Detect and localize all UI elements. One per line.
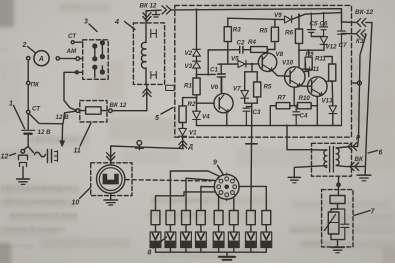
svg-text:(при с выводами: (при с выводами — [148, 211, 203, 218]
svg-text:V8: V8 — [276, 51, 284, 58]
wire battery down — [27, 135, 29, 147]
wire R1 bottom junction — [196, 95, 198, 111]
transformer 6 core — [330, 147, 334, 173]
connector chevron up on coil bottom wire — [143, 88, 151, 93]
wire R11 bottom to V13 — [331, 81, 334, 106]
box 3 lower-left terminal — [75, 71, 78, 74]
svg-text:9: 9 — [213, 160, 217, 167]
relay 3 lower contact pair — [95, 66, 103, 78]
branch right wire lower — [256, 97, 258, 103]
distributor tick marks — [213, 173, 241, 201]
base feed wire to V6 — [197, 102, 215, 104]
terminal VK12 circle — [109, 109, 113, 113]
wire V5 to V8 base — [245, 64, 259, 72]
wire R1/R2 junction branch — [183, 98, 197, 106]
wire fork to starter switch — [28, 147, 45, 157]
secondary lead lower with chevrons to VK — [336, 166, 365, 167]
wire coil top to bus with connector chevrons — [146, 10, 161, 28]
HV transformer box 6 (dashed) — [312, 143, 352, 176]
svg-text:R3: R3 — [233, 27, 241, 34]
starter switch contact bars — [47, 150, 49, 163]
transformer 6 primary winding — [324, 150, 327, 167]
suppression resistors of plug columns — [151, 211, 271, 225]
primary lead upper (to block output) — [312, 149, 327, 151]
svg-text:R1: R1 — [184, 83, 192, 90]
svg-text:V13: V13 — [322, 98, 334, 105]
svg-text:- ВК-12 и на вывод пн: - ВК-12 и на вывод пн — [2, 185, 72, 192]
wire ST switch blade to box 11 — [30, 111, 76, 124]
resistor R7 body — [276, 103, 290, 109]
wire K3 right margin vertical — [358, 35, 366, 147]
wire coil bottom to VK12 node with chevrons — [112, 85, 147, 111]
dashed mechanical link sensor to distributor — [125, 180, 211, 181]
svg-text:КЗ: КЗ — [356, 39, 364, 45]
terminal ST — [27, 110, 30, 113]
connector 12 contact brackets — [19, 155, 28, 160]
capacitor C5 — [307, 14, 315, 37]
ammeter right terminal — [56, 57, 59, 60]
terminal dot above box 7 — [337, 183, 340, 186]
svg-text:д и: д и — [355, 115, 365, 122]
bottom bus of spark plugs — [156, 248, 267, 253]
diode chain vertical wire at x196.5 — [196, 10, 198, 50]
secondary lead upper with chevrons to P — [336, 146, 357, 148]
wire distributor to column 1 bus — [156, 192, 216, 211]
svg-text:Д: Д — [188, 144, 194, 151]
spark gap element in box 7 — [331, 209, 338, 212]
wire stub AM into box 3 — [80, 58, 83, 60]
label 4 leader — [125, 22, 136, 30]
relay 3 contact column left — [94, 47, 96, 58]
ballast resistor box 11 (dashed) — [80, 101, 107, 122]
wire distributor to column 4 — [201, 187, 214, 211]
small capacitor tap between V10 and V11 — [302, 64, 309, 72]
svg-text:4: 4 — [114, 19, 119, 26]
ground at VK lead — [364, 166, 366, 174]
label 11 leader — [80, 123, 91, 146]
zener V2 — [193, 49, 201, 56]
wire R10 right to V11 emitter — [311, 105, 317, 107]
terminal PK — [27, 81, 30, 84]
capacitor C6 — [320, 13, 328, 37]
svg-text:Распредел: Распредел — [0, 243, 35, 250]
connector chevron down above sensor — [107, 157, 115, 162]
resistor 11 leads — [80, 110, 109, 112]
wire from box3 lower terminal down-left — [64, 72, 77, 110]
diode V7 — [241, 91, 249, 99]
svg-text:2: 2 — [22, 42, 27, 49]
svg-text:R11: R11 — [315, 56, 326, 63]
svg-text:V3: V3 — [185, 63, 193, 70]
transistor V6 — [214, 94, 233, 113]
sensor 10 magnet core — [103, 174, 118, 184]
ammeter left terminal — [27, 57, 30, 60]
label 5 leader — [161, 108, 173, 115]
svg-text:V11: V11 — [309, 66, 320, 73]
svg-text:12 В: 12 В — [56, 114, 70, 121]
wire V4 to bottom bus — [196, 120, 198, 126]
wire distributor to column 6 — [233, 198, 235, 210]
coil 4 terminal H upper — [151, 30, 157, 38]
svg-text:R6: R6 — [285, 30, 293, 37]
transformer 6 secondary winding — [336, 148, 339, 165]
branch right wire upper — [256, 72, 258, 82]
svg-text:Ра: Ра — [0, 47, 8, 54]
resistor R9 body — [305, 57, 312, 70]
svg-text:8: 8 — [148, 250, 152, 257]
coil 4 terminal H lower — [151, 72, 157, 79]
svg-text:ВК 12: ВК 12 — [110, 102, 127, 109]
svg-text:СТ: СТ — [32, 106, 41, 113]
ground of box 7 — [337, 240, 339, 247]
svg-text:СТ: СТ — [68, 33, 77, 40]
svg-text:R10: R10 — [299, 95, 311, 102]
V6 collector lead — [221, 77, 223, 94]
resistor R3 body — [224, 27, 231, 42]
wire left column from ammeter down — [27, 60, 29, 81]
R3 top lead — [227, 18, 229, 27]
wire V12 bottom to R9 top row — [299, 45, 324, 51]
capacitor C4 — [293, 106, 300, 126]
diode V13 — [329, 106, 337, 114]
svg-text:V10: V10 — [282, 60, 294, 67]
ground lug bar — [246, 143, 258, 145]
terminal stub with circle on K3 vertical — [353, 82, 358, 84]
resistor in box 7 — [330, 196, 345, 204]
svg-text:12 В: 12 В — [38, 129, 52, 136]
wire to capacitor C2 — [208, 49, 239, 51]
wire stub lower terminal into box 3 — [78, 71, 82, 73]
sensor 10 inner circle — [99, 168, 122, 191]
svg-text:11: 11 — [74, 148, 81, 155]
capacitor C3 stub — [243, 107, 252, 126]
wire V3 to R1 with junction to C1 row — [196, 68, 198, 78]
diode V5 — [238, 60, 246, 67]
capacitor C1 — [217, 74, 225, 77]
ground tap wire from bus through case — [251, 126, 253, 144]
capacitor tap on coil top wire — [153, 11, 160, 18]
resistor R10 body — [298, 103, 312, 109]
R11 top lead — [324, 57, 332, 65]
primary lead lower to ground — [294, 166, 327, 177]
C2-R4 feed vertical — [207, 50, 209, 75]
wire VK-12 output right margin vertical — [365, 23, 372, 167]
R9 leads — [308, 50, 310, 76]
wire ground lug to plug column 7 — [250, 144, 253, 211]
plug connector on sensor wire — [137, 141, 142, 146]
wire stub with down arrow below switch junction — [61, 124, 63, 142]
wire R7-R10 junction — [290, 105, 298, 107]
resistor R11 body — [329, 64, 336, 81]
wire distributor to column 2 — [170, 171, 219, 211]
wire R4 to V8 collector node — [267, 50, 275, 54]
zener V3 — [193, 61, 201, 68]
label 1 leader — [14, 106, 25, 129]
diode V12 — [320, 37, 328, 45]
wire resistor down — [337, 204, 339, 210]
svg-text:V5: V5 — [231, 56, 239, 63]
wire sensor top with connector chevrons — [111, 146, 184, 165]
branch drop to bottom bus — [251, 103, 253, 125]
connector 12 terminal circle — [21, 149, 25, 153]
svg-text:V12: V12 — [326, 44, 338, 51]
R5 top resistor body — [271, 27, 278, 41]
wire V2 to V3 — [196, 56, 198, 61]
diode V1 — [179, 128, 187, 136]
svg-text:R5: R5 — [264, 84, 272, 91]
second bus (R3 rail to VK-12 output) — [228, 13, 342, 20]
distributor 9 electrodes — [217, 177, 237, 197]
ignition coil box 4 (dashed) — [133, 23, 164, 85]
V7 branch left wire — [244, 72, 246, 91]
V13 bottom lead — [332, 114, 334, 126]
diode V4 — [193, 111, 201, 119]
svg-text:АМ: АМ — [66, 48, 77, 55]
capacitor C7 in right branch — [338, 13, 346, 126]
wire distributor to column 8 — [239, 186, 266, 210]
svg-text:V4: V4 — [202, 114, 210, 121]
label 6 leader — [368, 151, 378, 154]
transistor V10 — [285, 67, 305, 87]
label 9 leader — [218, 166, 224, 176]
label 10 leader — [80, 188, 91, 199]
bottom join in box 7 — [331, 234, 345, 240]
svg-text:вания его: вания его — [300, 240, 331, 247]
R6 leads — [298, 15, 300, 67]
ammeter A (2) — [34, 51, 49, 66]
svg-text:А: А — [38, 56, 44, 63]
box 11 left terminal — [76, 109, 80, 113]
relay 3 contact column right — [101, 44, 103, 57]
connector chevron up at terminal D — [179, 140, 187, 144]
electronic switch block 5 (dashed box) — [175, 5, 352, 137]
top supply bus of block 5 — [171, 9, 342, 22]
chevrons into block 5 top bus — [162, 6, 171, 14]
label 8 leader — [153, 237, 167, 248]
label 7 leader — [354, 211, 370, 216]
svg-text:R7: R7 — [278, 95, 286, 102]
output wire to coil box 6 — [287, 126, 312, 150]
small dashed fragment right of box 4 — [166, 85, 175, 90]
svg-text:С6: С6 — [320, 21, 328, 28]
svg-text:- вывод М сопрягал: - вывод М сопрягал — [2, 226, 66, 233]
wire distributor to column 5 — [218, 197, 220, 211]
svg-text:С2: С2 — [237, 40, 245, 47]
ground of transformer primary — [288, 176, 300, 178]
wire distributor to column 3 — [186, 178, 215, 210]
capacitor in box 7 — [338, 209, 349, 240]
wire C2 to R4 — [243, 49, 251, 51]
ground of plug bus — [226, 252, 228, 256]
resistor R6 body — [295, 29, 302, 43]
distributor center electrode — [225, 185, 228, 188]
svg-text:С3: С3 — [253, 109, 261, 116]
wire V10 emitter to V11 base — [300, 85, 312, 87]
terminal ST of box 3 — [71, 41, 74, 44]
wire stub ST into box 3 — [74, 41, 83, 43]
svg-text:V9: V9 — [274, 12, 282, 19]
svg-text:V2: V2 — [185, 50, 193, 57]
R5 leads — [274, 20, 276, 50]
svg-text:10: 10 — [72, 200, 80, 207]
svg-text:V6: V6 — [211, 84, 219, 91]
C1 bottom lead to V6 collector — [220, 77, 222, 92]
svg-text:С4: С4 — [300, 113, 308, 120]
svg-text:R5: R5 — [260, 28, 268, 35]
V6 emitter to bus — [226, 112, 228, 125]
label 12 leader — [10, 154, 16, 156]
diode V9 — [285, 16, 292, 23]
C1 top lead to V5 row — [218, 64, 238, 74]
wire V11 emitter down to bus — [316, 96, 318, 125]
resistor R5 lower body — [254, 82, 261, 97]
wire V1 to input terminal D with chevrons — [182, 136, 184, 148]
svg-text:ния с выводами у: ния с выводами у — [150, 197, 209, 204]
wire PK to ST — [27, 85, 29, 111]
svg-text:R4: R4 — [248, 39, 256, 46]
svg-text:ВК: ВК — [355, 156, 364, 163]
terminal AM circle — [76, 57, 80, 61]
wire R2 to V1 — [182, 123, 184, 129]
chevrons VK-12 output — [357, 18, 366, 26]
transistor V11 — [308, 77, 328, 97]
wire V3-R1 junction to C1 top plate — [197, 73, 216, 75]
branch bottom bar — [245, 102, 258, 104]
svg-text:С7: С7 — [339, 42, 347, 49]
label 2 leader — [28, 47, 36, 53]
resistor R4 body — [251, 47, 268, 53]
ground under connector 12 — [17, 178, 30, 180]
battery 1 (12 V) plates — [22, 129, 35, 131]
svg-text:V7: V7 — [233, 86, 241, 93]
resistor R2 body — [179, 106, 186, 123]
wire ST to battery — [27, 114, 29, 130]
label 3 leader — [89, 24, 97, 32]
svg-text:ВК-12: ВК-12 — [355, 9, 373, 16]
svg-text:5: 5 — [155, 115, 159, 122]
svg-text:ПК: ПК — [31, 82, 40, 89]
svg-text:R2: R2 — [188, 101, 196, 108]
capacitor C2 — [240, 46, 243, 53]
svg-text:и ВК-12 для пи: и ВК-12 для пи — [30, 136, 77, 143]
distributor 9 outer circle — [214, 174, 239, 199]
resistor 11 body — [86, 107, 101, 114]
spark plugs (8) — [150, 232, 272, 248]
pulse sensor box 10 (dashed) — [91, 163, 132, 196]
component labels inside block 5 — [184, 12, 347, 137]
svg-text:- ВК-12 с выводами: - ВК-12 с выводами — [2, 198, 65, 205]
V7 lower lead — [244, 98, 246, 103]
chevrons K3 output — [356, 30, 365, 38]
wire connector 12 to ground — [22, 167, 24, 179]
svg-text:ВК 12: ВК 12 — [140, 3, 157, 10]
svg-text:3: 3 — [84, 19, 88, 26]
wire V11 collector to R11 — [325, 80, 332, 82]
svg-text:R9: R9 — [306, 51, 314, 58]
transistor V8 — [258, 53, 276, 71]
sensor ground — [110, 193, 112, 199]
leads resistor to spark plug — [156, 225, 267, 232]
wire V10 emitter down to R7/R10 junction — [293, 87, 295, 106]
R7 left lead — [270, 106, 276, 126]
svg-text:пы па: пы па — [60, 3, 79, 10]
junction wire C5-C6-V12 — [311, 36, 324, 38]
svg-text:V1: V1 — [189, 130, 197, 137]
svg-text:12: 12 — [1, 154, 9, 161]
svg-text:1: 1 — [9, 101, 13, 108]
svg-text:пополнение СТ волн: пополнение СТ волн — [10, 212, 77, 219]
relay box 3 (dashed) — [83, 40, 109, 80]
wire ammeter to AM terminal — [60, 57, 77, 59]
resistor R1 body — [193, 78, 200, 95]
svg-text:С1: С1 — [210, 67, 218, 74]
suppressor box 7 (dashed) — [322, 190, 353, 247]
sensor 10 outer circle — [97, 165, 125, 193]
coil 4 primary winding — [145, 28, 147, 43]
svg-text:6: 6 — [379, 150, 383, 157]
connector chevron down on coil top wire — [143, 17, 151, 22]
wire transformer to suppressor box 7 — [338, 176, 340, 195]
wire fork to connector 12 — [24, 147, 28, 150]
bottom common bus of block 5 — [197, 125, 342, 127]
svg-text:С5: С5 — [310, 21, 318, 28]
R3 bottom lead — [227, 42, 229, 65]
wire V8 emitter to V10 base — [272, 70, 290, 76]
